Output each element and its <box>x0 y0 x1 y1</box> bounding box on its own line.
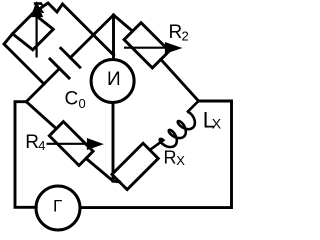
arrow of variable resistor R4 <box>47 140 101 149</box>
svg-text:4: 4 <box>38 138 45 153</box>
capacitor C0 plate 2 <box>50 59 69 78</box>
wire resistor R4 to node B <box>86 158 113 181</box>
wire outer loop right: generator to bottom-right corner, right wire up, stub to node R <box>80 101 232 208</box>
arrow of variable resistor R2 <box>124 44 179 53</box>
svg-text:И: И <box>107 69 121 90</box>
resistor R4 body (variable) <box>49 122 93 166</box>
wire R1 branch upper zigzag: resistor R1 top corner over peaks to indicator wire <box>33 3 114 55</box>
capacitor C0 plate 1 <box>61 48 80 67</box>
svg-text:2: 2 <box>182 29 189 44</box>
arrow of variable resistor R1 <box>32 2 42 57</box>
wire R1 branch lower: resistor R1 left corner, bend, down to junction J <box>4 34 44 84</box>
wire resistor R2 to node R <box>161 59 199 101</box>
svg-text:R: R <box>34 0 45 17</box>
wire indicator circle to node B <box>112 103 115 182</box>
resistor Rx body <box>112 143 158 189</box>
svg-text:X: X <box>212 115 222 131</box>
wire node K to resistor R4 <box>26 102 56 129</box>
svg-text:C: C <box>65 89 79 110</box>
indicator circle U1 (null detector) <box>91 60 134 103</box>
wire C0 branch upper: node T to capacitor plate 1 <box>70 15 113 58</box>
svg-text:X: X <box>176 153 185 168</box>
svg-text:Г: Г <box>53 197 62 216</box>
svg-text:R: R <box>25 132 39 153</box>
wire outer loop left: node K stub, left wire down, bottom wire to generator <box>15 102 36 208</box>
wire node T to indicator circle <box>112 15 115 60</box>
generator G circle <box>36 186 80 230</box>
resistor R2 body (variable) <box>124 23 169 68</box>
resistor R1 body (variable) <box>13 13 54 50</box>
inductor Lx coil <box>151 101 199 149</box>
svg-text:0: 0 <box>79 96 86 111</box>
svg-text:R: R <box>164 147 177 167</box>
wire resistor Rx to node B <box>113 181 120 182</box>
wire C0 branch lower: plate 2 to junction J <box>44 69 60 85</box>
wire node T to resistor R2 <box>114 15 133 31</box>
svg-text:R: R <box>169 22 183 43</box>
wire junction J to node K <box>26 84 44 102</box>
